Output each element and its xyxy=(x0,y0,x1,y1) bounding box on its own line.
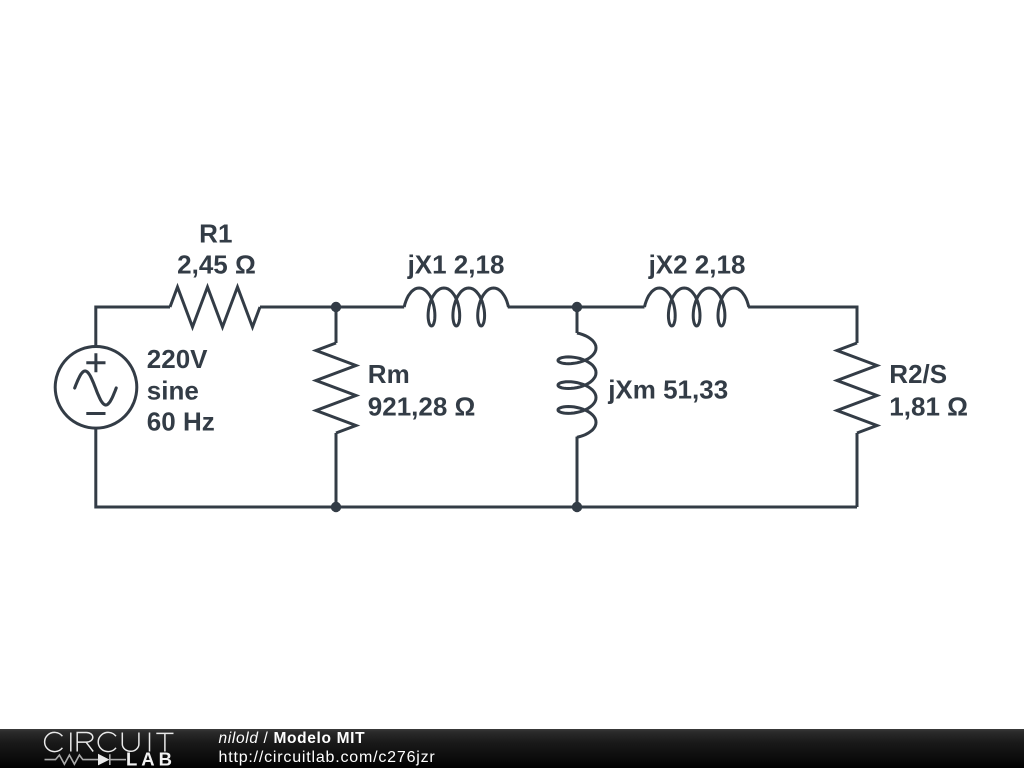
svg-text:jXm 51,33: jXm 51,33 xyxy=(607,375,728,405)
svg-text:2,45 Ω: 2,45 Ω xyxy=(177,249,256,279)
svg-text:Rm: Rm xyxy=(368,359,410,389)
svg-text:LAB: LAB xyxy=(126,749,176,768)
svg-text:220V: 220V xyxy=(147,344,208,374)
svg-text:nilold / Modelo MIT: nilold / Modelo MIT xyxy=(219,730,366,747)
svg-text:jX2 2,18: jX2 2,18 xyxy=(648,249,746,279)
svg-text:jX1 2,18: jX1 2,18 xyxy=(407,249,505,279)
svg-text:R2/S: R2/S xyxy=(889,359,947,389)
svg-text:1,81 Ω: 1,81 Ω xyxy=(889,392,968,422)
svg-text:60 Hz: 60 Hz xyxy=(147,407,215,437)
svg-text:sine: sine xyxy=(147,375,199,405)
svg-text:921,28 Ω: 921,28 Ω xyxy=(368,392,476,422)
svg-text:R1: R1 xyxy=(199,219,232,249)
svg-text:http://circuitlab.com/c276jzr: http://circuitlab.com/c276jzr xyxy=(219,749,436,766)
